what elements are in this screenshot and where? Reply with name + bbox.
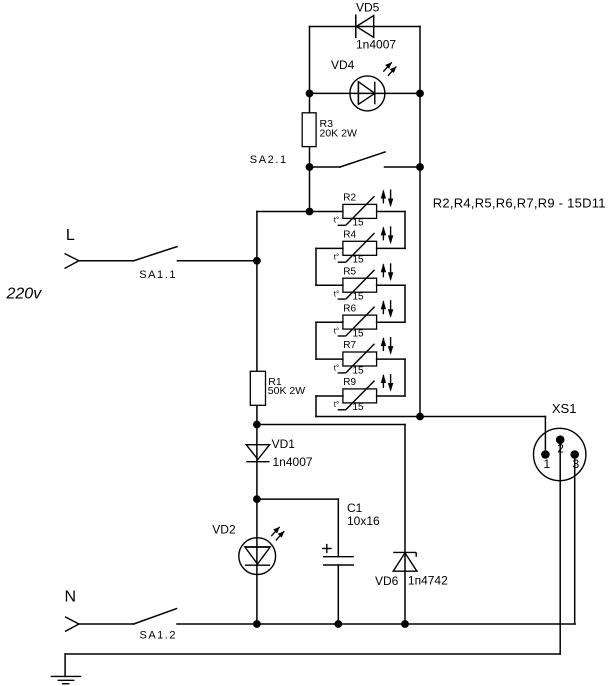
XS1 pin 2 <box>556 435 565 455</box>
svg-text:SA2.1: SA2.1 <box>250 154 288 166</box>
terminal N <box>65 589 79 632</box>
connector XS1 <box>534 401 586 481</box>
capacitor C1 10x16 <box>322 501 380 624</box>
wire R9 left down to bottom node <box>316 396 420 417</box>
wire R2 left lead <box>310 211 343 213</box>
junction VD6 on N bus <box>401 620 409 628</box>
svg-text:220v: 220v <box>6 286 43 303</box>
wire VD4 row <box>310 92 421 94</box>
resistor R3 20K 2W <box>302 113 357 147</box>
junction bottom right node <box>416 413 424 421</box>
junction VD2 on N bus <box>253 620 261 628</box>
wire left rail down from SA1.1 node through R1 VD1 VD2 to N bus <box>256 261 258 624</box>
LED VD4 <box>331 58 396 111</box>
thermistor R4 15D11 <box>334 226 394 265</box>
svg-text:C1: C1 <box>347 501 363 515</box>
label thermistor group value R2,R4,R5,R6,R7,R9 - 15D11 <box>433 196 606 211</box>
svg-text:15: 15 <box>353 255 365 266</box>
svg-text:R5: R5 <box>343 266 356 277</box>
wire R5 right to R6 right <box>377 285 405 322</box>
svg-text:t°: t° <box>334 253 339 262</box>
wire from VD1 node right and down to C1 <box>257 499 338 556</box>
junction VD1 C1 node <box>253 495 261 503</box>
LED VD2 <box>212 523 284 575</box>
diode VD5 1n4007 <box>356 1 397 52</box>
svg-text:N: N <box>65 589 77 606</box>
thermistor R9 15D11 <box>334 374 394 413</box>
svg-text:3: 3 <box>573 457 580 471</box>
svg-text:SA1.1: SA1.1 <box>139 269 177 281</box>
junction VD4 left <box>306 90 314 98</box>
svg-text:10x16: 10x16 <box>347 514 380 528</box>
svg-text:1п4742: 1п4742 <box>408 574 448 588</box>
svg-text:1n4007: 1n4007 <box>356 38 396 52</box>
svg-text:R2: R2 <box>343 193 356 204</box>
svg-text:R7: R7 <box>343 340 356 351</box>
wire left rail upper (top bus down to VD4 row) <box>309 27 311 94</box>
junction C1 on N bus <box>334 620 342 628</box>
wire bottom node to XS1 pin 1 <box>420 417 545 455</box>
svg-text:1n4007: 1n4007 <box>273 455 313 469</box>
junction R1 bottom node <box>253 421 261 429</box>
switch SA1.2 <box>79 609 177 642</box>
svg-text:VD1: VD1 <box>272 437 296 451</box>
svg-text:t°: t° <box>334 216 339 225</box>
svg-text:1: 1 <box>544 457 551 471</box>
svg-text:15: 15 <box>353 218 365 229</box>
junction SA2.1 left <box>306 163 314 171</box>
svg-text:R9: R9 <box>343 377 356 388</box>
thermistor R6 15D11 <box>334 300 394 339</box>
svg-text:XS1: XS1 <box>552 401 577 416</box>
wire XS1 pin 2 to ground bus <box>559 443 561 654</box>
junction node R2 branch <box>306 208 314 216</box>
svg-text:15: 15 <box>353 328 365 339</box>
wire right rail (top bus down to bottom junction) <box>419 27 421 417</box>
switch SA2.1 <box>250 152 420 167</box>
wire R4 left to R5 left <box>316 248 343 285</box>
label 220v <box>6 286 43 303</box>
svg-text:VD5: VD5 <box>356 1 380 15</box>
thermistor R7 15D11 <box>334 337 394 376</box>
XS1 pin 3 <box>570 450 579 471</box>
svg-text:t°: t° <box>334 326 339 335</box>
wire R2 right lead to R4 right <box>377 212 405 249</box>
resistor R1 50K 2W <box>250 371 305 405</box>
thermistor R2 15D11 <box>334 190 394 229</box>
junction SA1.1 output node <box>253 257 261 265</box>
svg-text:15: 15 <box>353 365 365 376</box>
junction SA2.1 right <box>416 163 424 171</box>
ground <box>51 676 82 683</box>
diode VD1 1n4007 <box>246 437 313 469</box>
switch SA1.1 <box>79 247 257 281</box>
svg-text:VD4: VD4 <box>331 58 355 72</box>
svg-text:20K 2W: 20K 2W <box>320 127 357 139</box>
svg-text:15: 15 <box>353 292 365 303</box>
wire N bus <box>177 623 575 625</box>
svg-text:L: L <box>66 227 75 244</box>
wire XS1 pin 3 to N bus <box>574 458 576 625</box>
wire from R2 junction left and down to SA1.1 node <box>257 212 310 261</box>
wire from R1 node right and down to VD6 <box>257 425 405 625</box>
svg-text:VD6: VD6 <box>375 574 399 588</box>
svg-text:t°: t° <box>334 400 339 409</box>
svg-text:R4: R4 <box>343 230 356 241</box>
svg-text:R6: R6 <box>343 303 356 314</box>
wire left rail VD4 to R3 <box>309 93 311 211</box>
wire R7 right to R9 right <box>377 359 405 396</box>
terminal L <box>65 227 79 269</box>
svg-text:15: 15 <box>353 402 365 413</box>
svg-text:t°: t° <box>334 290 339 299</box>
svg-text:SA1.2: SA1.2 <box>140 629 177 641</box>
wire ground bus <box>65 654 560 676</box>
svg-text:VD2: VD2 <box>212 523 236 537</box>
svg-text:50K 2W: 50K 2W <box>268 385 305 397</box>
wire R6 left to R7 left <box>316 322 343 359</box>
thermistor R5 15D11 <box>334 263 394 302</box>
svg-text:R2,R4,R5,R6,R7,R9 - 15D11: R2,R4,R5,R6,R7,R9 - 15D11 <box>433 196 606 211</box>
XS1 pin 1 <box>541 450 550 471</box>
junction VD4 right <box>416 90 424 98</box>
svg-text:t°: t° <box>334 363 339 372</box>
zener diode VD6 1n4742 <box>375 552 448 588</box>
wire top bus from left rail to right rail <box>310 26 421 28</box>
